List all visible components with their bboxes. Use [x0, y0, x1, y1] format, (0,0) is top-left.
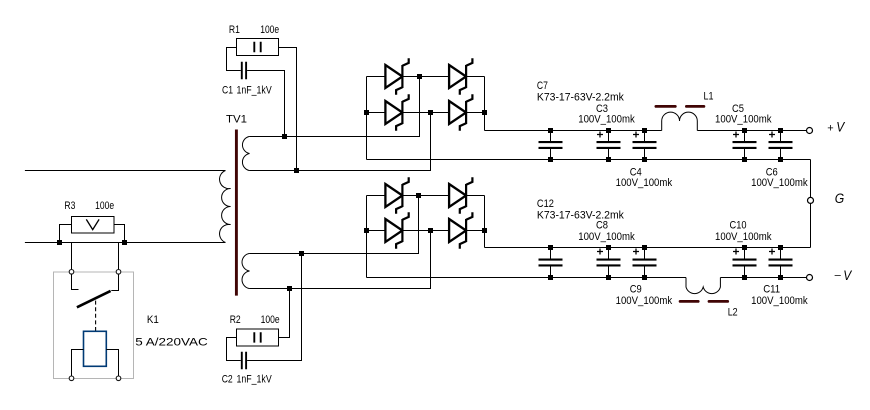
capacitor C9	[633, 245, 657, 280]
wire bridge1 top row	[367, 76, 485, 78]
wire bridge2 left vertical minus node	[366, 196, 368, 278]
junction bridge1 minus node	[364, 110, 369, 115]
svg-text:1nF_1kV: 1nF_1kV	[237, 85, 273, 97]
junction bridge1 AC1 node	[417, 74, 422, 79]
svg-text:1nF_1kV: 1nF_1kV	[237, 374, 273, 386]
junction bridge1 plus node	[482, 110, 487, 115]
capacitor C4	[633, 128, 657, 162]
transformer TV1 secondary winding 1	[242, 137, 249, 171]
transformer TV1 primary winding	[220, 171, 231, 243]
svg-text:–: –	[835, 270, 842, 282]
svg-text:C7: C7	[537, 80, 548, 92]
capacitor C7	[539, 128, 563, 162]
diode VD8	[449, 212, 472, 248]
svg-text:R3: R3	[64, 200, 75, 212]
svg-text:C9: C9	[630, 284, 642, 296]
capacitor C5	[733, 128, 757, 162]
wire mains line top	[25, 170, 226, 172]
inductor L2	[680, 278, 728, 302]
junction R2 lead to secondary2 bottom lead	[287, 286, 292, 291]
capacitor C6	[769, 128, 793, 162]
junction R3 left lead on wire	[57, 240, 62, 245]
svg-text:100V_100mk: 100V_100mk	[715, 231, 772, 243]
wire secondary2 top lead to bridge2 AC1	[249, 196, 418, 254]
svg-text:R2: R2	[230, 314, 241, 326]
capacitor C12	[539, 245, 563, 280]
junction bridge2 AC1 node	[416, 193, 421, 198]
svg-text:C11: C11	[763, 284, 780, 296]
svg-text:+: +	[827, 122, 833, 134]
svg-text:K1: K1	[147, 314, 159, 326]
svg-text:K73-17-63V-2.2mk: K73-17-63V-2.2mk	[537, 210, 624, 222]
wire +V rail left part	[485, 130, 662, 132]
svg-text:C12: C12	[537, 198, 554, 210]
capacitor C3	[597, 128, 621, 162]
wire mains line bottom	[25, 242, 226, 244]
svg-text:100V_100mk: 100V_100mk	[715, 113, 772, 125]
wire bridge1 left vertical minus node	[366, 77, 368, 160]
svg-text:100e: 100e	[260, 24, 279, 36]
wire G drop upper	[810, 160, 812, 198]
junction bridge2 AC2 node	[428, 228, 433, 233]
junction bridge1 AC2 node	[428, 110, 433, 115]
junction bridge2 plus node	[482, 228, 487, 233]
wire bridge1 right vertical plus node	[484, 77, 486, 131]
wire bridge1 bottom row	[367, 112, 485, 114]
inductor L1	[656, 106, 704, 130]
svg-text:C2: C2	[222, 374, 233, 386]
svg-text:TV1: TV1	[226, 114, 247, 126]
diode VD1	[385, 58, 408, 94]
junction R1 lead to secondary1 bottom lead	[294, 168, 299, 173]
capacitor C2	[242, 254, 302, 370]
diode VD6	[449, 177, 472, 213]
junction C1 lead to secondary1 top lead	[282, 134, 287, 139]
relay K1	[54, 270, 134, 381]
diode VD3	[385, 94, 408, 130]
wire top ground rail	[367, 159, 811, 161]
junction bridge2 minus node	[364, 228, 369, 233]
svg-text:G: G	[835, 191, 845, 206]
wire -V rail right part	[720, 277, 806, 279]
resistor R3	[60, 217, 125, 243]
svg-text:R1: R1	[229, 24, 240, 36]
svg-text:L1: L1	[704, 91, 714, 103]
wire relay contact pin right drop	[118, 243, 120, 270]
wire bridge2 bottom row	[367, 230, 485, 232]
capacitor C1	[242, 62, 285, 137]
transformer TV1 secondary winding 2	[242, 254, 249, 289]
wire G drop lower	[810, 203, 812, 247]
wire relay contact pin left drop	[71, 243, 73, 270]
svg-text:100V_100mk: 100V_100mk	[578, 113, 635, 125]
resistor R1	[227, 39, 297, 171]
diode VD7	[385, 212, 408, 248]
svg-text:L2: L2	[728, 307, 738, 319]
svg-text:100e: 100e	[261, 314, 280, 326]
svg-text:100V_100mk: 100V_100mk	[616, 177, 673, 189]
wire bridge2 right vertical plus node	[484, 196, 486, 248]
svg-text:100V_100mk: 100V_100mk	[578, 231, 635, 243]
diode VD2	[449, 58, 472, 94]
diode VD4	[449, 94, 472, 130]
svg-text:K73-17-63V-2.2mk: K73-17-63V-2.2mk	[537, 92, 624, 104]
resistor R2	[227, 289, 290, 361]
wire bridge2 top row	[367, 195, 485, 197]
capacitor C10	[733, 245, 757, 280]
junction C2 lead to secondary2 top lead	[299, 251, 304, 256]
wire secondary1 top lead to bridge1 AC1	[249, 77, 419, 137]
wire bottom ground rail	[485, 247, 811, 249]
svg-text:100V_100mk: 100V_100mk	[751, 177, 808, 189]
transformer TV1 core	[235, 130, 238, 296]
terminal -V	[807, 275, 813, 281]
diode VD5	[385, 177, 408, 213]
wire secondary2 bottom lead to bridge2 AC2	[249, 231, 430, 289]
svg-text:100V_100mk: 100V_100mk	[751, 295, 808, 307]
capacitor C8	[597, 245, 621, 280]
svg-text:5 A/220VAC: 5 A/220VAC	[135, 337, 208, 349]
svg-text:100e: 100e	[95, 200, 114, 212]
wire -V rail left part	[367, 277, 687, 279]
terminal G	[808, 197, 814, 203]
capacitor C11	[769, 245, 793, 280]
wire secondary1 bottom lead to bridge1 AC2	[249, 113, 430, 171]
svg-text:100V_100mk: 100V_100mk	[616, 295, 673, 307]
junction R3 right lead on wire	[122, 240, 127, 245]
terminal +V	[807, 128, 813, 134]
wire +V rail right part	[697, 130, 806, 132]
svg-text:C1: C1	[222, 85, 233, 97]
